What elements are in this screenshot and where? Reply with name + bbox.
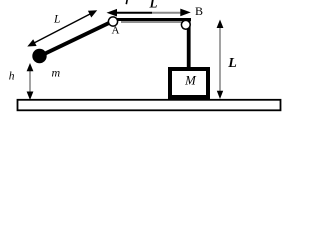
svg-text:h: h (9, 71, 15, 83)
svg-text:L: L (149, 0, 158, 11)
svg-text:A: A (112, 24, 120, 36)
svg-text:L: L (227, 56, 237, 71)
svg-text:B: B (195, 4, 203, 18)
svg-text:M: M (184, 73, 197, 87)
svg-text:m: m (52, 66, 61, 80)
svg-text:L: L (53, 14, 60, 26)
